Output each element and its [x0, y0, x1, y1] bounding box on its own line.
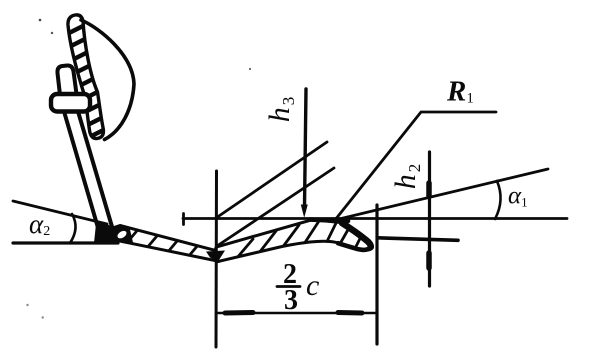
svg-text:3: 3	[284, 285, 298, 316]
h3 arrowhead	[301, 205, 308, 218]
disc profile arc	[81, 20, 134, 140]
alpha2 angle line	[13, 201, 107, 224]
clamp	[51, 94, 90, 112]
svg-text:R1: R1	[446, 76, 474, 108]
svg-text:h3: h3	[263, 95, 298, 123]
blade tip lower edge thickening	[338, 243, 370, 250]
disc section strip (hatched)	[61, 15, 112, 140]
2/3c right thick dash	[338, 310, 362, 316]
slant line B from blade vertex	[217, 168, 334, 246]
left extension line (2/3c)	[215, 171, 219, 347]
svg-text:α1: α1	[508, 183, 528, 210]
alpha2 arc	[70, 214, 76, 243]
reference line left tick	[182, 214, 185, 225]
blade tip black zone + hatch loop	[104, 227, 133, 243]
blade left segment hatching	[125, 226, 204, 257]
h2 tick bottom	[426, 253, 432, 268]
h3 dimension line	[305, 89, 307, 207]
2/3c left thick dash	[225, 310, 253, 316]
svg-text:α2: α2	[29, 209, 50, 239]
blade right segment hatching	[236, 219, 362, 259]
h2 dimension line	[428, 152, 431, 286]
blade tip outer edge thickening	[342, 223, 371, 247]
alpha1 angle line	[335, 169, 548, 220]
svg-text:c: c	[306, 269, 319, 302]
h2 lower reference line	[378, 238, 459, 241]
right extension line (2/3c)	[375, 205, 378, 344]
blade bottom vertex blob	[206, 251, 225, 262]
R1 leader line	[335, 112, 496, 220]
fraction 2/3	[277, 259, 300, 316]
horizontal reference line	[183, 217, 567, 220]
slant line A from ref intersection	[216, 142, 327, 218]
svg-text:h2: h2	[389, 162, 424, 190]
alpha1 arc	[495, 181, 501, 219]
ground line	[13, 241, 118, 244]
h2 tick top	[426, 183, 432, 196]
shank stub above clamp	[57, 65, 76, 95]
blade crest thick merge with reference line	[310, 220, 348, 221]
specks	[26, 19, 251, 319]
2/3c dimension line	[216, 312, 375, 315]
shank bar below clamp	[63, 108, 113, 238]
blade outline	[105, 220, 372, 262]
junction blob	[94, 222, 116, 244]
